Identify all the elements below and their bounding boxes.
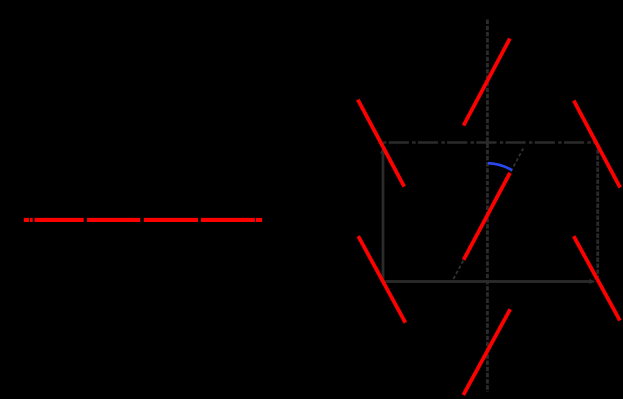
- molecule B (top-left corner, tilt \): [358, 100, 404, 187]
- unit-cell right edge (dashed gray): [596, 144, 599, 278]
- director extension: thin dashed dark line through central molecule: [453, 149, 523, 280]
- x-axis (bottom edge) with right arrow: [383, 279, 596, 284]
- smectic layer (left): dashed red horizontal line: [24, 218, 262, 222]
- molecule G (bottom centre, tilt /): [463, 309, 510, 395]
- molecule C (top-right corner, tilt \): [574, 101, 620, 188]
- unit-cell top edge (dash-dot gray): [383, 141, 598, 143]
- layer normal: vertical dashed gray line: [486, 20, 489, 393]
- molecule A (top centre, tilt /): [464, 39, 510, 126]
- tilt-angle arc (blue): [488, 163, 512, 170]
- molecule D (central director, tilt /): [464, 173, 510, 260]
- molecule F (bottom-right corner, tilt \): [574, 236, 620, 320]
- y-axis (left edge) with up arrow: [380, 147, 386, 282]
- molecule E (bottom-left corner, tilt \): [358, 236, 405, 323]
